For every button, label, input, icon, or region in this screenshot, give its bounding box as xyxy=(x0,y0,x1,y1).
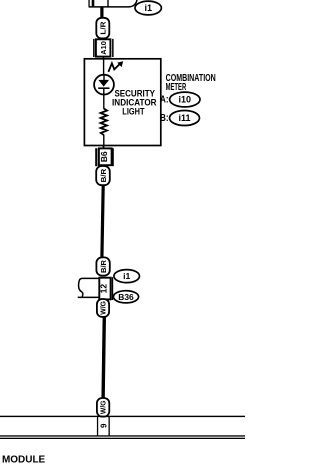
wire from fuse block to L/R label xyxy=(100,7,103,19)
svg-text:i1: i1 xyxy=(123,271,130,281)
LED lamp circle xyxy=(94,75,114,95)
svg-text:MODULE: MODULE xyxy=(2,455,46,466)
svg-text:B/R: B/R xyxy=(99,168,108,182)
svg-text:A:: A: xyxy=(160,94,169,105)
connector A10 left bar xyxy=(93,39,95,57)
module top edge line xyxy=(0,416,245,417)
connector B6 left bar xyxy=(95,148,97,166)
svg-text:B:: B: xyxy=(160,113,169,124)
wire color label L/R xyxy=(96,18,109,39)
svg-text:i11: i11 xyxy=(178,113,190,123)
svg-text:B/R: B/R xyxy=(99,259,108,273)
connector i1 oval (middle) xyxy=(114,270,140,283)
wire stub meter box to B6 xyxy=(103,145,105,148)
connector i10 oval xyxy=(170,92,200,107)
connector right bar xyxy=(112,277,114,300)
wire resistor to box edge xyxy=(103,135,104,146)
partial glyph stem in cut-off connector xyxy=(92,0,95,6)
svg-text:W/G: W/G xyxy=(99,301,108,315)
combination meter box (security indicator light) xyxy=(84,59,160,146)
wire color label B/R (lower) xyxy=(96,257,109,275)
light emission zigzag arrow xyxy=(108,63,119,72)
svg-text:i1: i1 xyxy=(144,3,152,13)
connector B6 box xyxy=(99,148,112,165)
connector i1 oval (top) xyxy=(135,1,161,15)
connector side bar left (cut off) xyxy=(88,0,89,7)
wire color label W/G (upper) xyxy=(97,299,109,317)
harness connector flag shape xyxy=(79,278,100,297)
LED anode wire inside circle xyxy=(103,75,104,80)
harness connector flag bottom edge xyxy=(78,297,100,299)
wire color label B/R (upper) xyxy=(96,166,110,185)
connector B36 oval xyxy=(113,291,138,303)
module connector strip line upper xyxy=(0,435,245,436)
svg-text:A10: A10 xyxy=(99,41,108,55)
connector A10 right bar xyxy=(112,39,114,57)
wire W/G down to module xyxy=(103,317,104,399)
svg-text:L/R: L/R xyxy=(98,21,107,35)
LED cathode bar xyxy=(98,87,109,89)
connector i11 oval xyxy=(170,111,200,126)
wire color label W/G (lower) xyxy=(97,398,109,417)
module pin 9 box left side xyxy=(97,417,98,436)
resistor (indicator lamp resistor) xyxy=(101,109,108,136)
wire LED to resistor xyxy=(103,89,104,109)
svg-text:LIGHT: LIGHT xyxy=(122,107,145,117)
module connector strip line lower xyxy=(0,438,245,439)
wire stub A10 to meter box xyxy=(103,56,105,59)
connector side bar right (cut off) xyxy=(107,0,108,7)
connector B6 right bar xyxy=(112,148,113,166)
wire B/R down to body connector xyxy=(102,185,103,259)
wire inside meter box to LED xyxy=(103,59,104,76)
connector pin box 12 xyxy=(99,278,110,300)
svg-text:i10: i10 xyxy=(179,95,192,105)
fuse block box bottom edge (cut off at top) xyxy=(89,0,137,7)
svg-text:B36: B36 xyxy=(118,292,134,302)
svg-text:12: 12 xyxy=(100,283,109,293)
svg-text:W/G: W/G xyxy=(99,400,108,414)
module pin 9 box right side xyxy=(109,417,110,436)
svg-text:B6: B6 xyxy=(100,151,109,163)
svg-text:9: 9 xyxy=(99,423,108,428)
LED triangle (anode) xyxy=(98,80,109,87)
connector A10 box xyxy=(96,39,111,56)
